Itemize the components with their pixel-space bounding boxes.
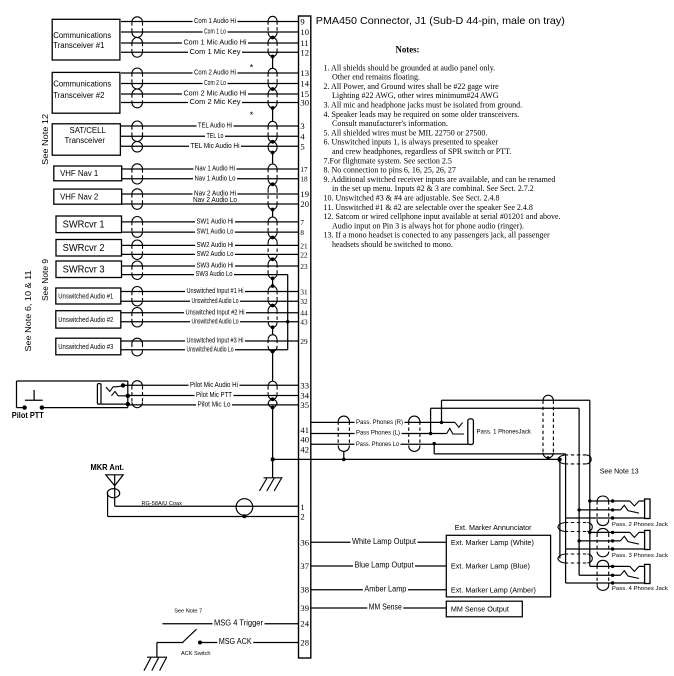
- svg-text:See Note 6, 10 & 11: See Note 6, 10 & 11: [24, 270, 33, 352]
- svg-text:21: 21: [300, 242, 308, 250]
- label See Note 12: [41, 113, 50, 165]
- shield sw2 (left): [132, 240, 143, 245]
- svg-text:14: 14: [300, 79, 309, 89]
- shield chain link y327-334: [272, 327, 274, 334]
- label Unswitched Audio Lo: [190, 317, 240, 324]
- ground symbol (audio panel): [264, 477, 283, 479]
- svg-text:Nav 1 Audio Lo: Nav 1 Audio Lo: [195, 173, 236, 182]
- svg-text:TEL Lo: TEL Lo: [207, 131, 224, 140]
- ack switch left wire: [157, 642, 184, 644]
- svg-text:Pass Phones (L): Pass Phones (L): [356, 429, 400, 436]
- vertical R bus: [589, 400, 591, 566]
- feed wire L top: [431, 407, 579, 409]
- hstadium shield at corner: [558, 455, 565, 464]
- shield oval at connector for pin 29: [268, 335, 277, 340]
- label Unswitched Input #3 Hi: [185, 337, 245, 344]
- svg-text:7.For flightmate system. See s: 7.For flightmate system. See section 2.5: [324, 156, 452, 165]
- wire Com 2 Lo: [121, 83, 299, 85]
- svg-text:SWRcvr 1: SWRcvr 1: [63, 220, 105, 231]
- svg-text:Pilot Mic Lo: Pilot Mic Lo: [198, 400, 231, 409]
- shield pass1 ground stub: [343, 451, 345, 459]
- svg-text:Consult manufacturer's informa: Consult manufacturer's information.: [332, 119, 448, 128]
- label Pass Phones L: [355, 428, 402, 435]
- wire Com 1 Mic Audio Hi: [121, 42, 299, 44]
- label Pilot Mic Audio Hi: [189, 381, 240, 388]
- svg-text:Unswitched Audio #2: Unswitched Audio #2: [58, 315, 113, 324]
- label Nav 2 Audio Lo: [192, 196, 239, 203]
- label SW2 Audio Lo: [195, 250, 235, 257]
- svg-text:TEL Mic Audio Hi: TEL Mic Audio Hi: [191, 141, 240, 150]
- svg-text:13: 13: [300, 68, 309, 78]
- label SW1 Audio Hi: [195, 218, 235, 225]
- shield chain junction dot y399: [271, 397, 275, 401]
- svg-text:Pilot PTT: Pilot PTT: [12, 411, 44, 420]
- shield nav1 (left): [132, 164, 143, 169]
- ground symbol (ack switch): [147, 656, 167, 658]
- wire ptt bottom to jack: [42, 407, 128, 409]
- shield bus corner dot: [558, 458, 562, 462]
- svg-text:TEL Audio Hi: TEL Audio Hi: [198, 121, 232, 130]
- wire amber lamp: [311, 589, 447, 591]
- svg-text:12: 12: [300, 47, 309, 57]
- svg-text:Amber Lamp: Amber Lamp: [364, 584, 407, 593]
- svg-text:Unswitched Audio #3: Unswitched Audio #3: [58, 342, 113, 351]
- svg-text:34: 34: [300, 391, 309, 401]
- shield pass1 ground dot: [342, 458, 346, 462]
- shield oval at connector for pins 9-10: [268, 16, 277, 21]
- ack switch contact dot: [198, 641, 202, 645]
- shield tel mic (left): [132, 141, 143, 146]
- wire blue lamp: [311, 565, 447, 567]
- box Communications Transceiver #1: [52, 19, 120, 60]
- pass1 jack sleeve bar: [468, 419, 474, 445]
- svg-text:Ext. Marker Lamp (White): Ext. Marker Lamp (White): [451, 538, 534, 547]
- svg-text:Notes:: Notes:: [396, 45, 420, 55]
- box VHF Nav 2: [54, 189, 122, 204]
- wire Com 1 Audio Hi: [121, 21, 299, 23]
- label TEL Audio Hi: [197, 122, 234, 129]
- label Pass Phones Lo: [355, 440, 401, 447]
- label Unswitched Audio Lo: [190, 297, 240, 304]
- pilot jack junction dot tip: [121, 383, 125, 387]
- shield pass phones 1: [338, 416, 349, 421]
- shield pass phones 2: [409, 416, 420, 421]
- svg-text:5. All shielded wires must be: 5. All shielded wires must be MIL 22750 …: [324, 128, 488, 137]
- junction dot lo bus at pin 43 wire: [286, 320, 289, 323]
- svg-text:3: 3: [300, 121, 304, 131]
- svg-text:PMA450 Connector, J1 (Sub-D 44: PMA450 Connector, J1 (Sub-D 44-pin, male…: [316, 16, 565, 27]
- wire coax shield to pin 2: [108, 516, 299, 518]
- svg-text:Unswitched Input #3 Hi: Unswitched Input #3 Hi: [187, 336, 244, 345]
- wire pilot ptt top: [17, 380, 128, 382]
- shield chain junction dot y305: [271, 304, 275, 308]
- svg-text:Communications: Communications: [53, 80, 111, 89]
- coax shield down lead: [107, 493, 109, 516]
- svg-text:43: 43: [300, 319, 308, 327]
- wire MSG 4 Trigger: [162, 623, 298, 625]
- pass1 ring feed dot: [429, 432, 432, 435]
- pilot jack junction dot ring: [126, 394, 130, 398]
- svg-text:19: 19: [300, 189, 309, 199]
- svg-text:*: *: [250, 62, 254, 72]
- feed wire R top: [442, 399, 590, 401]
- svg-text:20: 20: [300, 199, 309, 209]
- shield chain junction dot y351: [271, 350, 275, 354]
- svg-text:SW2 Audio Hi: SW2 Audio Hi: [197, 240, 234, 249]
- svg-text:SW2 Audio Lo: SW2 Audio Lo: [197, 249, 234, 258]
- wire Unswitched Input #3 Hi: [121, 340, 299, 342]
- pilot mic jack sleeve bar: [97, 384, 101, 405]
- svg-text:10: 10: [300, 27, 309, 37]
- ptt contact dot right: [40, 405, 44, 409]
- svg-text:18: 18: [300, 176, 308, 184]
- shield chain link y407-477: [272, 408, 274, 478]
- wire TEL Mic Audio Hi: [121, 145, 299, 147]
- big shield oval over feeds: [543, 395, 553, 400]
- shield tel pair (left): [132, 121, 143, 126]
- wire SW2 Audio Lo: [121, 253, 299, 255]
- label Unswitched Input #1 Hi: [185, 287, 245, 294]
- label SW1 Audio Lo: [195, 228, 235, 235]
- shield chain link y278-286: [272, 278, 274, 286]
- svg-text:SW1 Audio Lo: SW1 Audio Lo: [197, 227, 234, 236]
- shield oval at connector for pin 35: [268, 399, 277, 404]
- label Com 2 Mic Key: [188, 98, 242, 105]
- shield chain junction dot y237: [271, 236, 275, 240]
- label White Lamp Output: [351, 537, 418, 545]
- shield oval at connector for pins 13-14: [268, 68, 277, 73]
- svg-text:Unswitched Audio Lo: Unswitched Audio Lo: [187, 344, 234, 353]
- wire Unswitched Audio Lo: [121, 300, 299, 302]
- svg-text:MSG 4 Trigger: MSG 4 Trigger: [214, 618, 263, 627]
- wire coax center to pin 1: [115, 505, 299, 507]
- shield oval at connector for pins 11-12: [268, 38, 277, 43]
- label Pass Phones R: [355, 418, 405, 425]
- svg-text:23: 23: [300, 263, 308, 271]
- shield chain junction dot y327: [271, 325, 275, 329]
- hstadium shield between jack3 jack4: [558, 554, 565, 563]
- shield chain junction dot y407: [271, 406, 275, 410]
- box SWRcvr 2: [56, 240, 122, 257]
- svg-text:9. Additional switched receive: 9. Additional switched receiver inputs a…: [324, 175, 556, 184]
- box SAT/CELL Transceiver: [52, 124, 120, 155]
- shield jack4: [597, 560, 609, 565]
- svg-text:Com 1 Audio Hi: Com 1 Audio Hi: [194, 16, 236, 25]
- shield chain junction dot y259: [271, 257, 275, 261]
- wire mm sense: [311, 607, 447, 609]
- ptt pushbutton actuator: [33, 390, 35, 400]
- shield com1 pair B (left): [132, 38, 143, 43]
- svg-text:Transceiver #2: Transceiver #2: [53, 91, 104, 100]
- wire ack to ground: [156, 643, 158, 658]
- box SWRcvr 1: [56, 216, 122, 233]
- label Nav 2 Audio Hi: [193, 189, 238, 196]
- shield com2 pair A (left): [132, 68, 143, 73]
- shield chain link y351-381: [272, 352, 274, 382]
- label SW3 Audio Hi: [195, 262, 235, 269]
- svg-text:Unswitched Audio Lo: Unswitched Audio Lo: [192, 296, 239, 305]
- wire Nav 2 Audio Lo: [121, 203, 299, 205]
- shield unsw1 (left): [132, 287, 143, 292]
- shield chain junction dot y37: [271, 36, 275, 40]
- shield chain junction dot y56: [271, 55, 275, 59]
- svg-text:Audio input on Pin 3 is always: Audio input on Pin 3 is always hot for p…: [332, 221, 524, 230]
- box Unswitched Audio #3: [56, 338, 121, 355]
- shield oval at connector for pin 5: [268, 142, 277, 147]
- svg-text:See Note 13: See Note 13: [600, 469, 639, 476]
- shield pilot mic (left): [132, 381, 143, 386]
- shield oval at connector for pins 7-8: [268, 217, 277, 222]
- svg-text:8: 8: [300, 229, 304, 237]
- svg-text:SAT/CELL: SAT/CELL: [70, 126, 107, 135]
- box MM Sense Output: [446, 601, 522, 617]
- svg-text:in the set up menu. Inputs #2: in the set up menu. Inputs #2 & 3 are co…: [332, 184, 534, 193]
- svg-text:*: *: [250, 110, 254, 120]
- label Com 1 Mic Audio Hi: [182, 39, 248, 46]
- vertical L bus: [578, 408, 580, 575]
- svg-text:2: 2: [300, 512, 304, 522]
- pass 3 phone jack: [590, 531, 630, 533]
- svg-text:See Note 9: See Note 9: [41, 258, 50, 301]
- svg-text:11. Unswitched #1 & #2 are sel: 11. Unswitched #1 & #2 are selectable ov…: [324, 203, 533, 212]
- feed wire Lo horizontal: [434, 453, 565, 455]
- label Com 1 Audio Hi: [193, 17, 238, 24]
- ptt contact dot left: [22, 405, 26, 409]
- svg-text:MSG ACK: MSG ACK: [219, 637, 253, 646]
- label TEL Lo: [205, 132, 225, 139]
- svg-text:33: 33: [300, 380, 309, 390]
- pass 4 phone jack: [590, 565, 630, 567]
- shield chain link y108-121: [272, 108, 274, 121]
- svg-text:Pass. Phones (R): Pass. Phones (R): [356, 419, 403, 426]
- svg-text:SW1 Audio Hi: SW1 Audio Hi: [197, 217, 234, 226]
- svg-text:SWRcvr 3: SWRcvr 3: [63, 265, 105, 276]
- shield chain junction dot y108: [271, 106, 275, 110]
- box VHF Nav 1: [54, 166, 122, 181]
- box Unswitched Audio #2: [56, 311, 121, 328]
- svg-text:35: 35: [300, 400, 309, 410]
- label See Note 9: [41, 258, 50, 301]
- shield oval at connector for pin 23: [268, 259, 277, 264]
- shield sw3 (left): [132, 261, 143, 266]
- svg-text:Ext. Marker Lamp (Amber): Ext. Marker Lamp (Amber): [451, 585, 536, 594]
- shield jack3: [597, 528, 609, 533]
- svg-text:7: 7: [300, 219, 304, 227]
- svg-text:Transceiver: Transceiver: [65, 136, 106, 145]
- svg-text:24: 24: [300, 619, 309, 629]
- svg-text:MKR Ant.: MKR Ant.: [91, 463, 125, 472]
- svg-text:9: 9: [300, 17, 304, 27]
- svg-text:28: 28: [300, 638, 309, 648]
- shield oval at connector for pins 3-4: [268, 121, 277, 126]
- wire Nav 1 Audio Lo: [121, 178, 299, 180]
- vertical lo bus: [565, 454, 567, 583]
- wire SW1 Audio Hi: [121, 221, 299, 223]
- svg-text:Com 2 Audio Hi: Com 2 Audio Hi: [194, 68, 236, 77]
- svg-text:8. No connection to pins 6, 16: 8. No connection to pins 6, 16, 25, 26, …: [324, 166, 456, 175]
- shield unsw3 (left): [132, 338, 143, 343]
- wire pilot vertical at jack: [127, 381, 129, 408]
- wire TEL Audio Hi: [121, 125, 299, 127]
- svg-text:and crew headphones, regardles: and crew headphones, regardless of SPR s…: [332, 147, 511, 156]
- wire Com 2 Mic Key: [121, 102, 299, 104]
- svg-text:Unswitched Input #2 Hi: Unswitched Input #2 Hi: [186, 307, 245, 316]
- pilot jack tip contact: [106, 386, 123, 392]
- label Com 2 Mic Audio Hi: [182, 90, 248, 97]
- svg-text:Lighting #22 AWG, other wires: Lighting #22 AWG, other wires minimum#24…: [332, 91, 499, 100]
- label Nav 1 Audio Lo: [193, 174, 237, 181]
- wire SW3 Audio Lo: [121, 274, 288, 276]
- wire Pilot Mic Lo: [128, 404, 299, 406]
- wire SW2 Audio Hi: [121, 244, 299, 246]
- shield oval at connector for pins 17-18: [268, 164, 277, 169]
- ack switch arm: [183, 629, 197, 642]
- svg-text:38: 38: [300, 585, 309, 595]
- label Unswitched Audio Lo 3: [185, 345, 235, 352]
- shield chain link y152-164: [272, 153, 274, 165]
- svg-text:See Note 12: See Note 12: [41, 113, 50, 165]
- wire Unswitched Audio Lo #3: [121, 349, 288, 351]
- svg-text:Unswitched Input #1 Hi: Unswitched Input #1 Hi: [187, 286, 244, 295]
- svg-text:Pass. Phones Lo: Pass. Phones Lo: [356, 441, 400, 448]
- box Unswitched Audio #1: [56, 288, 121, 304]
- pass 2 phone jack: [590, 500, 630, 502]
- connector J1 body (Sub-D 44 pin strip): [299, 16, 311, 658]
- svg-text:4. Speaker leads may be requir: 4. Speaker leads may be required on some…: [324, 110, 520, 119]
- shield oval at connector for pins 21-22: [268, 238, 277, 243]
- svg-text:37: 37: [300, 561, 309, 571]
- svg-text:36: 36: [300, 537, 309, 547]
- svg-text:Pilot Mic Audio Hi: Pilot Mic Audio Hi: [190, 380, 238, 389]
- label TEL Mic Audio Hi: [189, 142, 241, 149]
- svg-text:Blue Lamp Output: Blue Lamp Output: [355, 561, 415, 570]
- svg-text:VHF Nav 1: VHF Nav 1: [60, 169, 98, 178]
- shield chain junction dot y209: [271, 208, 275, 212]
- wire MSG ACK: [200, 642, 299, 644]
- wire Com 2 Mic Audio Hi: [121, 93, 299, 95]
- wire TEL Lo: [121, 135, 299, 137]
- label Com 2 Audio Hi: [193, 69, 238, 76]
- label MM Sense: [367, 603, 403, 611]
- shield oval at connector for pins 44-43: [268, 306, 277, 311]
- coax shield loop at antenna: [107, 489, 119, 498]
- svg-text:Pass. 1 PhonesJack: Pass. 1 PhonesJack: [477, 430, 532, 436]
- svg-text:10. Unswitched #3 & #4 are adj: 10. Unswitched #3 & #4 are adjustable. S…: [324, 194, 500, 203]
- shield oval at connector for pins 15-30: [268, 89, 277, 94]
- svg-text:29: 29: [300, 338, 308, 346]
- svg-text:VHF Nav 2: VHF Nav 2: [60, 192, 98, 201]
- wire white lamp: [311, 541, 447, 543]
- label Amber Lamp: [363, 585, 408, 593]
- svg-text:39: 39: [300, 603, 309, 613]
- svg-text:Com 1 Mic Audio Hi: Com 1 Mic Audio Hi: [184, 38, 247, 47]
- wire SW1 Audio Lo: [121, 231, 299, 233]
- svg-text:22: 22: [300, 251, 308, 259]
- svg-text:17: 17: [300, 166, 308, 174]
- svg-text:1. All shields should be groun: 1. All shields should be grounded at aud…: [324, 63, 496, 72]
- svg-text:Ext. Marker Annunciator: Ext. Marker Annunciator: [455, 523, 532, 532]
- junction square shield bus to ground: [271, 458, 275, 462]
- wire Unswitched Input #1 Hi: [121, 291, 299, 293]
- svg-text:Ext. Marker Lamp (Blue): Ext. Marker Lamp (Blue): [451, 562, 530, 571]
- shield com2 pair B (left): [132, 89, 143, 94]
- shield jack2: [597, 496, 609, 501]
- shield chain junction dot y89: [271, 87, 275, 91]
- svg-text:Nav 2 Audio Lo: Nav 2 Audio Lo: [193, 195, 237, 204]
- svg-text:6. Unswitched inputs 1, is al: 6. Unswitched inputs 1, is always presen…: [324, 138, 499, 147]
- hstadium shield between jack2 jack3: [558, 523, 565, 532]
- big shield bottom dot: [547, 456, 550, 459]
- svg-text:Unswitched Audio Lo: Unswitched Audio Lo: [192, 316, 239, 325]
- svg-text:4: 4: [300, 131, 305, 141]
- wire Unswitched Input #2 Hi: [121, 312, 299, 314]
- svg-text:31: 31: [300, 289, 308, 297]
- feed wire Lo down: [433, 444, 435, 454]
- svg-text:MM Sense Output: MM Sense Output: [451, 605, 510, 614]
- svg-text:Com 2 Lo: Com 2 Lo: [204, 78, 226, 87]
- shield com1 pair A (left): [132, 17, 143, 22]
- svg-text:SW3 Audio Lo: SW3 Audio Lo: [196, 269, 233, 278]
- wire ptt stub: [17, 407, 25, 409]
- svg-text:Com 1 Mic Key: Com 1 Mic Key: [190, 47, 241, 56]
- feed wire R up: [441, 400, 443, 422]
- shield chain link y56-68: [272, 57, 274, 69]
- shield chain junction dot y152: [271, 151, 275, 155]
- wire Pass Phones R: [311, 421, 455, 423]
- label Pilot Mic PTT: [195, 391, 234, 398]
- marker antenna symbol: [106, 475, 123, 486]
- shield sw1 (left): [132, 217, 143, 222]
- shield chain junction dot y141: [271, 140, 275, 144]
- shield oval at connector for pins 33-34: [268, 381, 277, 386]
- svg-text:Pass. 4 Phones Jack: Pass. 4 Phones Jack: [612, 586, 668, 592]
- svg-text:ACK Switch: ACK Switch: [181, 651, 211, 657]
- label SW3 Audio Lo: [194, 270, 234, 277]
- label Blue Lamp Output: [353, 561, 415, 569]
- pass1 tip feed dot: [440, 421, 443, 424]
- svg-text:Com 1 Lo: Com 1 Lo: [204, 27, 226, 36]
- svg-text:40: 40: [300, 435, 309, 445]
- coax shield junction dot: [242, 514, 246, 518]
- wire Nav 2 Audio Hi: [121, 193, 299, 195]
- shield chain junction dot y278: [271, 277, 275, 281]
- wire joining SW3 lo to unswitched lo bus: [287, 275, 289, 350]
- label Unswitched Input #2 Hi: [184, 308, 246, 315]
- wire Pilot Mic PTT: [128, 395, 299, 397]
- wire Pass Phones Lo: [311, 443, 468, 445]
- svg-text:Other end remains floating.: Other end remains floating.: [332, 73, 420, 82]
- wire Com 2 Audio Hi: [121, 72, 299, 74]
- svg-text:1: 1: [300, 502, 304, 512]
- wire SW3 Audio Hi: [121, 265, 299, 267]
- pass1 jack ring contact: [447, 428, 464, 434]
- wire Pass Phones L: [311, 433, 447, 435]
- coax shield circle at connector: [236, 499, 253, 516]
- svg-text:Transceiver #1: Transceiver #1: [53, 41, 104, 50]
- label MSG 4 Trigger: [213, 619, 265, 627]
- wire Com 1 Mic Key: [121, 51, 299, 53]
- svg-text:44: 44: [300, 310, 308, 318]
- svg-text:SWRcvr 2: SWRcvr 2: [63, 243, 105, 254]
- shield oval at connector for pins 19-20: [268, 184, 277, 189]
- label MSG ACK: [217, 637, 253, 645]
- svg-text:32: 32: [300, 298, 308, 306]
- wire Com 1 Lo: [121, 31, 299, 33]
- svg-text:See Note 7: See Note 7: [174, 609, 202, 615]
- svg-text:Com 2 Mic Key: Com 2 Mic Key: [190, 97, 241, 106]
- shield oval at connector for pins 31-32: [268, 286, 277, 291]
- svg-text:Pass. 2 Phones Jack: Pass. 2 Phones Jack: [612, 522, 668, 528]
